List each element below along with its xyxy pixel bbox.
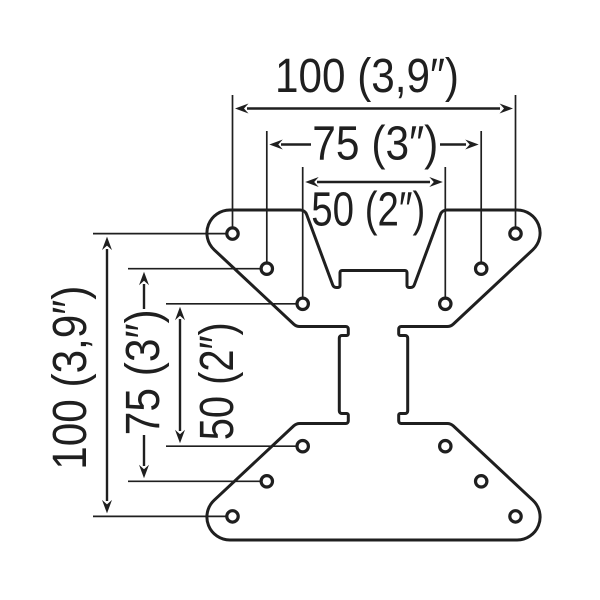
- svg-text:50 (2″): 50 (2″): [311, 183, 425, 236]
- svg-text:50 (2″): 50 (2″): [191, 322, 244, 440]
- svg-text:100 (3,9″): 100 (3,9″): [275, 50, 459, 103]
- svg-text:100 (3,9″): 100 (3,9″): [44, 286, 97, 470]
- svg-text:75 (3″): 75 (3″): [312, 118, 438, 171]
- svg-text:75 (3″): 75 (3″): [117, 309, 170, 435]
